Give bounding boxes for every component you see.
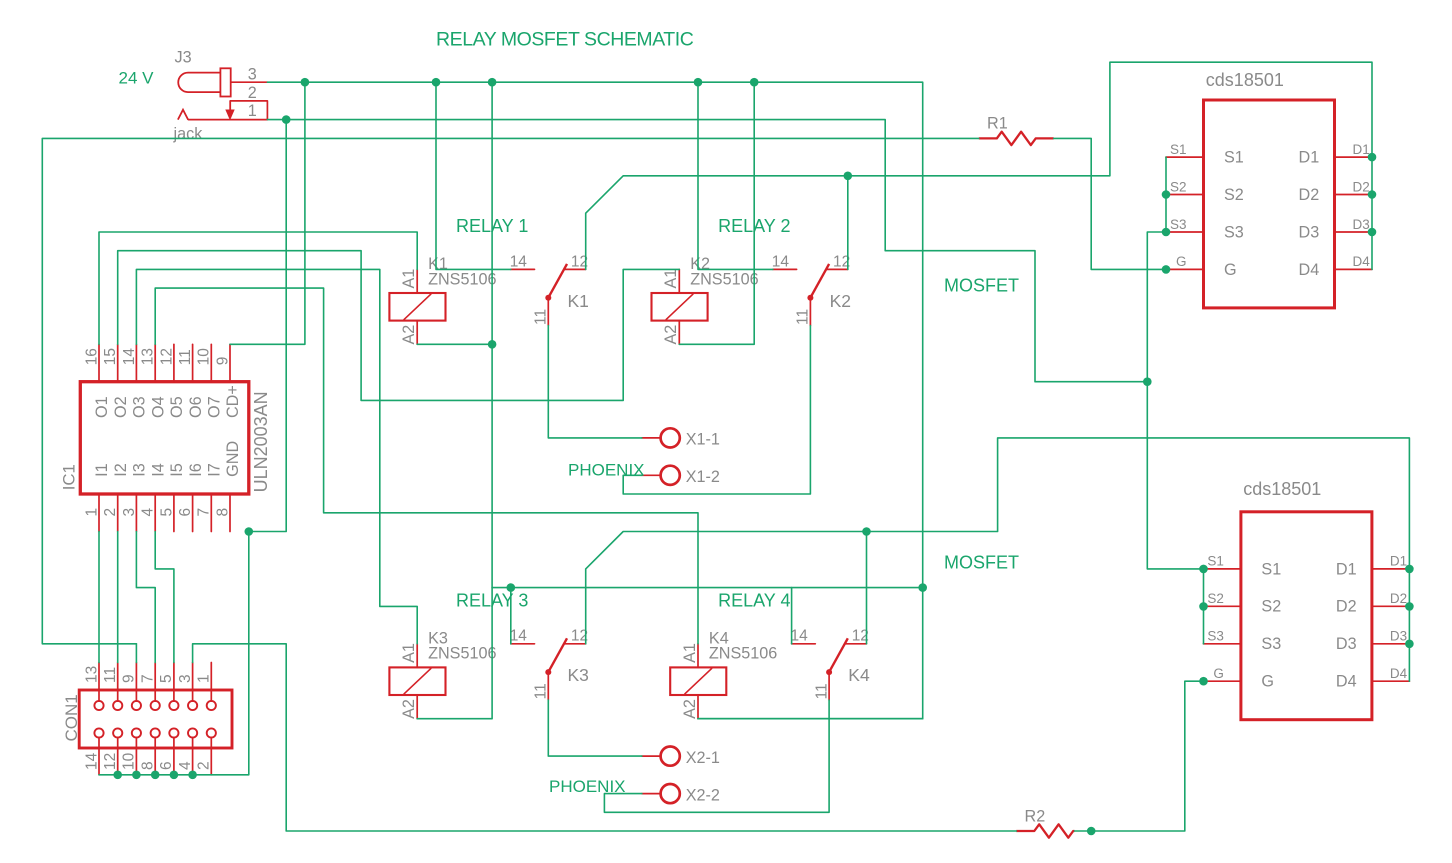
wire CON1 pin9 stub riser [135, 644, 137, 663]
U3 pin D4 stub [1372, 680, 1410, 682]
svg-text:I5: I5 [168, 463, 186, 477]
relay K1 coil pin A2 stub [416, 321, 418, 345]
svg-text:11: 11 [102, 667, 119, 683]
CON1 pin 3 circle [188, 701, 197, 710]
svg-text:15: 15 [102, 348, 119, 365]
svg-text:R1: R1 [987, 115, 1008, 133]
resistor R2 [1016, 824, 1074, 837]
svg-text:S1: S1 [1224, 149, 1244, 167]
CON1 pin 6 stub [173, 737, 175, 774]
connector J3 sleeve contact [220, 68, 230, 96]
relay K2 coil body [652, 293, 708, 321]
IC1 pin 13 stub [154, 344, 156, 381]
junction at U2 gate pin [1162, 265, 1171, 274]
svg-text:ZNS5106: ZNS5106 [428, 270, 496, 288]
U3 pin D1 stub [1372, 568, 1410, 570]
relay K2 switch pin 14 stub [773, 268, 797, 270]
relay K4 switch pin 11 stub [828, 672, 830, 700]
svg-text:IC1: IC1 [59, 464, 78, 490]
junction U2 S2 [1162, 190, 1171, 199]
wire K3 pin11 to X2-1 [548, 700, 642, 756]
svg-text:11: 11 [533, 683, 550, 699]
svg-text:D2: D2 [1353, 179, 1370, 194]
CON1 pin 10 stub [135, 737, 137, 774]
junction U2 D2 [1368, 190, 1377, 199]
svg-text:K3: K3 [568, 665, 589, 685]
CON1 pin 7 circle [151, 701, 160, 710]
U2 pin S3 stub [1166, 231, 1204, 233]
svg-text:S3: S3 [1207, 629, 1224, 644]
wire 24V to K1 pin 14 [436, 82, 511, 269]
IC1 pin 12 stub [173, 344, 175, 381]
wire 24V to K2 pin 14 [698, 82, 773, 269]
J3 pin 1 switch caret [178, 110, 188, 120]
svg-text:D1: D1 [1390, 554, 1407, 569]
svg-text:ZNS5106: ZNS5106 [709, 645, 777, 663]
svg-text:I6: I6 [187, 463, 205, 477]
IC U2 body cds18501 mosfet array [1204, 100, 1335, 308]
CON1 pin 14 stub [98, 737, 100, 774]
wire IC1 pin4 to CON1 pin5 [155, 532, 174, 663]
terminal X2-2 pad circle [661, 784, 680, 803]
svg-text:A2: A2 [400, 699, 418, 719]
junction K3 pin14 drop [507, 583, 516, 592]
svg-text:CD+: CD+ [224, 385, 242, 418]
CON1 pin 2 circle [207, 728, 216, 737]
svg-text:6: 6 [177, 508, 194, 517]
svg-text:D2: D2 [1336, 598, 1357, 616]
wire GND to IC1 pin 8 [249, 120, 286, 532]
CON1 pin 4 stub [192, 737, 194, 774]
wire IC1 pin14 to K3 A1 [136, 269, 417, 643]
svg-text:4: 4 [140, 508, 157, 517]
wire IC1 pin15 to K2 A1 [118, 251, 680, 401]
junction CON1 bottom bus pin 10 [132, 771, 141, 780]
svg-text:X2-2: X2-2 [686, 786, 720, 804]
U3 pin D3 stub [1372, 643, 1410, 645]
CON1 pin 5 stub [173, 663, 175, 702]
wire R2 to U3 gate [1075, 681, 1204, 831]
svg-text:D4: D4 [1390, 666, 1408, 681]
svg-text:X2-1: X2-1 [686, 749, 720, 767]
svg-text:2: 2 [102, 508, 119, 517]
relay K2 switch arm [810, 264, 829, 298]
wire CON1 pin9 riser to R1 line [42, 138, 979, 643]
wire K4 pin12 drop [866, 532, 868, 644]
connector CON1 body [79, 690, 232, 748]
relay K1 coil diagonal [404, 294, 432, 320]
U3 pin S3 stub [1203, 643, 1241, 645]
wire 24V to K1 coil A2 [417, 82, 492, 719]
svg-text:3: 3 [177, 674, 194, 683]
IC1 pin 1 stub [98, 494, 100, 532]
terminal X1-1 pin stub [642, 437, 661, 439]
CON1 pin 8 circle [151, 728, 160, 737]
wire K1 A2 stub join [417, 343, 492, 345]
J3 pin 2 stub [230, 101, 267, 120]
relay K4 switch arm [829, 638, 848, 672]
relay K4 coil pin A1 stub [697, 644, 699, 668]
junction CON1 bottom bus pin 8 [151, 771, 160, 780]
junction at R2 output [1087, 827, 1096, 836]
svg-text:14: 14 [83, 752, 100, 770]
CON1 pin 14 circle [94, 728, 103, 737]
svg-text:ULN2003AN: ULN2003AN [251, 391, 271, 492]
svg-text:J3: J3 [175, 49, 192, 67]
wire GND down to CON1 bus [99, 532, 249, 775]
svg-text:11: 11 [795, 309, 812, 325]
junction 24V rail / K1-14 branch [432, 78, 441, 87]
CON1 pin 9 stub [135, 663, 137, 702]
svg-text:A1: A1 [400, 643, 418, 663]
CON1 pin 4 circle [188, 728, 197, 737]
terminal X2-2 pin stub [642, 793, 661, 795]
svg-text:D1: D1 [1299, 149, 1320, 167]
svg-text:4: 4 [177, 761, 194, 770]
svg-text:11: 11 [177, 349, 194, 365]
svg-text:16: 16 [83, 348, 100, 365]
relay K4 coil pin A2 stub [697, 695, 699, 719]
wire GND riser to U3 S1 [1147, 382, 1203, 569]
relay K1 coil body [389, 293, 445, 321]
svg-text:D1: D1 [1336, 560, 1357, 578]
svg-text:D3: D3 [1390, 629, 1407, 644]
wire IC1 pin1 to CON1 pin13 [98, 532, 100, 663]
svg-text:O3: O3 [131, 396, 149, 418]
IC1 pin 7 stub [210, 494, 212, 532]
svg-text:S2: S2 [1170, 179, 1187, 194]
relay K2 coil pin A2 stub [678, 321, 680, 345]
CON1 pin 12 circle [113, 728, 122, 737]
svg-text:jack: jack [173, 125, 204, 143]
junction U3 D3 [1405, 640, 1414, 649]
svg-text:O6: O6 [187, 396, 205, 418]
relay K3 switch pin 14 stub [511, 643, 535, 645]
svg-text:D2: D2 [1299, 186, 1320, 204]
IC1 pin 6 stub [192, 494, 194, 532]
svg-text:S3: S3 [1224, 223, 1244, 241]
svg-text:D3: D3 [1353, 217, 1370, 232]
relay K4 coil diagonal [685, 668, 713, 694]
relay K1 switch pin 11 stub [547, 298, 549, 326]
junction U3 S1 [1199, 565, 1208, 574]
svg-text:14: 14 [121, 348, 138, 366]
IC1 pin 15 stub [117, 344, 119, 381]
relay K4 switch pivot [826, 669, 832, 675]
svg-text:24 V: 24 V [119, 69, 155, 88]
svg-text:A2: A2 [662, 325, 680, 345]
relay K3 switch pin 12 stub [564, 643, 586, 645]
CON1 pin 2 stub [210, 737, 212, 774]
svg-text:D4: D4 [1299, 261, 1320, 279]
svg-text:cds18501: cds18501 [1206, 70, 1284, 90]
U2 pin D1 stub [1335, 156, 1373, 158]
svg-text:I3: I3 [131, 463, 149, 477]
relay K1 switch arm [548, 264, 567, 298]
svg-text:R2: R2 [1025, 808, 1046, 826]
svg-text:9: 9 [121, 674, 138, 683]
IC1 pin 3 stub [135, 494, 137, 532]
svg-text:A1: A1 [681, 643, 699, 663]
svg-text:12: 12 [158, 348, 175, 365]
svg-text:CON1: CON1 [62, 694, 81, 741]
IC1 pin 8 stub [229, 494, 231, 532]
svg-text:6: 6 [158, 761, 175, 770]
svg-text:S3: S3 [1261, 635, 1281, 653]
svg-text:S2: S2 [1261, 598, 1281, 616]
svg-text:RELAY MOSFET SCHEMATIC: RELAY MOSFET SCHEMATIC [436, 28, 694, 50]
U2 pin S2 stub [1166, 194, 1204, 196]
junction lower drain rail / K4 pin12 [862, 527, 871, 536]
svg-text:13: 13 [140, 348, 157, 365]
wire U2 S3 to GND riser [1147, 232, 1166, 382]
svg-text:S1: S1 [1207, 554, 1224, 569]
svg-text:D4: D4 [1353, 254, 1371, 269]
IC U1 body IC1 ULN2003AN [80, 382, 249, 494]
svg-text:3: 3 [121, 508, 138, 517]
junction U3 S2 [1199, 602, 1208, 611]
relay K2 coil pin A1 stub [678, 269, 680, 293]
relay K4 switch pin 12 stub [845, 643, 867, 645]
svg-text:2: 2 [248, 84, 257, 102]
svg-text:2: 2 [196, 761, 213, 770]
CON1 pin 8 stub [154, 737, 156, 774]
terminal X2-1 pad circle [661, 747, 680, 766]
svg-text:O5: O5 [168, 396, 186, 418]
svg-text:8: 8 [140, 761, 157, 770]
relay K1 coil pin A1 stub [416, 269, 418, 293]
wire drop to K3 pin 14 [510, 588, 512, 644]
svg-text:5: 5 [158, 674, 175, 683]
wire X1-2 to K2 pin11 [623, 326, 810, 494]
U3 pin D2 stub [1372, 605, 1410, 607]
svg-text:D2: D2 [1390, 591, 1407, 606]
junction GND into MOSFET source chain [1143, 377, 1152, 386]
junction 24V rail / K2-14 branch [694, 78, 703, 87]
svg-text:14: 14 [510, 253, 528, 270]
U2 pin D2 stub [1335, 194, 1373, 196]
J3 pin 3 stub [231, 81, 267, 83]
svg-text:I4: I4 [149, 463, 167, 477]
wire R1 to MOSFET1 gate [1054, 138, 1166, 269]
svg-text:O7: O7 [206, 396, 224, 418]
junction 24V rail / relay34 feed [918, 583, 927, 592]
J3 pin 2 switch arrow [225, 101, 234, 121]
relay K3 switch arm [548, 638, 567, 672]
wire 24V to IC1 CD+ (pin 9) [230, 82, 305, 344]
svg-text:11: 11 [533, 309, 550, 325]
junction GND rail / IC branch [282, 115, 291, 124]
CON1 pin 1 circle [207, 701, 216, 710]
svg-text:D3: D3 [1299, 223, 1320, 241]
U2 pin G stub [1166, 268, 1204, 270]
wire K3 pin12 to lower drain rail [586, 438, 1410, 681]
relay K3 coil body [389, 667, 445, 695]
wire X2-2 to K4 pin11 [604, 700, 829, 812]
relay K1 switch pin 14 stub [511, 268, 535, 270]
IC U3 body cds18501 mosfet array [1241, 512, 1372, 720]
svg-text:K1: K1 [568, 291, 589, 311]
svg-text:A2: A2 [400, 325, 418, 345]
wire U2 source chain S1-S2-S3 [1165, 157, 1167, 232]
junction 24V rail / K2 coil branch [750, 78, 759, 87]
svg-text:O4: O4 [149, 396, 167, 418]
terminal X1-2 pin stub [642, 474, 661, 476]
IC1 pin 4 stub [154, 494, 156, 532]
svg-text:I1: I1 [93, 463, 111, 477]
wire IC1 pin16 to K1 A1 [99, 232, 417, 344]
svg-text:D1: D1 [1353, 142, 1370, 157]
IC1 pin 16 stub [98, 344, 100, 381]
svg-text:I2: I2 [112, 463, 130, 477]
relay K3 coil pin A2 stub [416, 695, 418, 719]
svg-text:PHOENIX: PHOENIX [568, 461, 645, 480]
junction 24V rail / CD+ branch [301, 78, 310, 87]
svg-text:G: G [1261, 673, 1274, 691]
wire 24V to K2 coil A2 [679, 82, 754, 344]
svg-text:O2: O2 [112, 396, 130, 418]
wire net GND from J3 pin1 [267, 120, 1147, 382]
svg-text:A2: A2 [681, 699, 699, 719]
wire drop to K4 pin 14 [791, 588, 793, 644]
svg-text:7: 7 [140, 674, 157, 683]
junction U3 D2 [1405, 602, 1414, 611]
U3 pin S2 stub [1203, 605, 1241, 607]
wire K1 pin12 to drain rail [586, 62, 1372, 269]
junction CON1 bottom bus pin 6 [170, 771, 179, 780]
junction 24V rail / K1 coil branch [488, 78, 497, 87]
U3 pin G stub [1203, 680, 1241, 682]
terminal X1-2 pad circle [661, 466, 680, 485]
svg-text:GND: GND [224, 441, 242, 477]
CON1 pin 13 stub [98, 663, 100, 702]
relay K2 coil diagonal [666, 294, 694, 320]
wire net 24V top rail [267, 82, 922, 719]
junction U3 D1 [1405, 565, 1414, 574]
svg-text:8: 8 [214, 508, 231, 517]
IC1 pin 11 stub [192, 344, 194, 381]
relay K3 coil pin A1 stub [416, 644, 418, 668]
IC1 pin 10 stub [210, 344, 212, 381]
J3 pin 1 stub [188, 119, 267, 121]
relay K1 switch pivot [545, 295, 551, 301]
svg-text:I7: I7 [206, 463, 224, 477]
svg-text:K2: K2 [830, 291, 851, 311]
U2 pin D3 stub [1335, 231, 1373, 233]
CON1 pin 6 circle [169, 728, 178, 737]
wire K1 pin11 to X1-1 [548, 326, 642, 438]
svg-text:X1-2: X1-2 [686, 468, 720, 486]
CON1 pin 5 circle [169, 701, 178, 710]
svg-text:K4: K4 [848, 665, 870, 685]
svg-text:G: G [1176, 254, 1187, 269]
CON1 pin 11 stub [117, 663, 119, 702]
junction K1 A2 on coil rail [488, 340, 497, 349]
svg-text:14: 14 [510, 628, 528, 645]
relay K2 switch pivot [807, 295, 813, 301]
svg-text:13: 13 [83, 666, 100, 683]
IC1 pin 5 stub [173, 494, 175, 532]
U3 pin S1 stub [1203, 568, 1241, 570]
resistor R1 [979, 132, 1054, 145]
CON1 pin 1 stub [210, 663, 212, 702]
svg-text:S2: S2 [1224, 186, 1244, 204]
CON1 pin 9 circle [132, 701, 141, 710]
U2 pin D4 stub [1335, 268, 1373, 270]
svg-text:10: 10 [121, 752, 138, 770]
wire 24V feed to K3/K4 pin14 rail [492, 587, 923, 589]
junction drain rail / K2 pin12 [844, 172, 853, 181]
svg-text:MOSFET: MOSFET [944, 553, 1019, 573]
svg-text:ZNS5106: ZNS5106 [690, 270, 758, 288]
svg-text:S1: S1 [1261, 560, 1281, 578]
relay K4 switch pin 14 stub [792, 643, 816, 645]
svg-text:S2: S2 [1207, 591, 1224, 606]
CON1 pin 10 circle [132, 728, 141, 737]
svg-text:D4: D4 [1336, 673, 1357, 691]
svg-text:cds18501: cds18501 [1243, 479, 1321, 499]
junction U2 S3 [1162, 228, 1171, 237]
IC1 pin 9 stub [229, 344, 231, 381]
wire K4 coil A2 to 24V rail [698, 718, 923, 720]
svg-text:MOSFET: MOSFET [944, 276, 1019, 296]
svg-text:RELAY 4: RELAY 4 [718, 590, 790, 610]
junction U2 D3 [1368, 228, 1377, 237]
terminal X1-1 pad circle [661, 428, 680, 447]
svg-text:S1: S1 [1170, 142, 1187, 157]
junction CON1 bottom bus pin 12 [113, 771, 122, 780]
CON1 pin 12 stub [117, 737, 119, 774]
CON1 pin 3 stub [192, 663, 194, 702]
wire IC1 pin2 to CON1 pin11 [117, 532, 119, 663]
svg-text:ZNS5106: ZNS5106 [428, 645, 496, 663]
svg-text:10: 10 [196, 348, 213, 366]
svg-text:5: 5 [158, 508, 175, 517]
svg-text:S3: S3 [1170, 217, 1187, 232]
wire IC1 pin13 to K4 A1 [155, 288, 698, 644]
CON1 pin 7 stub [154, 663, 156, 702]
connector J3 jack symbol body [178, 73, 220, 93]
svg-text:G: G [1224, 261, 1237, 279]
U2 pin S1 stub [1166, 156, 1204, 158]
IC1 pin 14 stub [135, 344, 137, 381]
relay K2 switch pin 11 stub [809, 298, 811, 326]
svg-text:X1-1: X1-1 [686, 431, 720, 449]
CON1 pin 11 circle [113, 701, 122, 710]
svg-text:3: 3 [248, 66, 257, 84]
relay K3 switch pivot [545, 669, 551, 675]
junction U2 D1 [1368, 153, 1377, 162]
wire IC1 pin3 to CON1 pin7 [136, 532, 155, 663]
svg-text:1: 1 [83, 508, 100, 517]
svg-text:A1: A1 [662, 269, 680, 289]
svg-text:D3: D3 [1336, 635, 1357, 653]
svg-text:14: 14 [791, 628, 809, 645]
IC1 pin 2 stub [117, 494, 119, 532]
junction GND at IC1 pin 8 [245, 527, 254, 536]
relay K3 coil diagonal [404, 668, 432, 694]
junction at U3 gate pin [1199, 677, 1208, 686]
relay K4 coil body [670, 667, 726, 695]
svg-text:9: 9 [214, 357, 231, 366]
relay K2 switch pin 12 stub [826, 268, 848, 270]
wire U3 source chain S1-S2-S3 [1203, 569, 1205, 644]
svg-text:O1: O1 [93, 396, 111, 418]
svg-text:12: 12 [102, 753, 119, 770]
svg-text:7: 7 [196, 508, 213, 517]
svg-text:1: 1 [196, 674, 213, 683]
svg-text:14: 14 [772, 253, 790, 270]
